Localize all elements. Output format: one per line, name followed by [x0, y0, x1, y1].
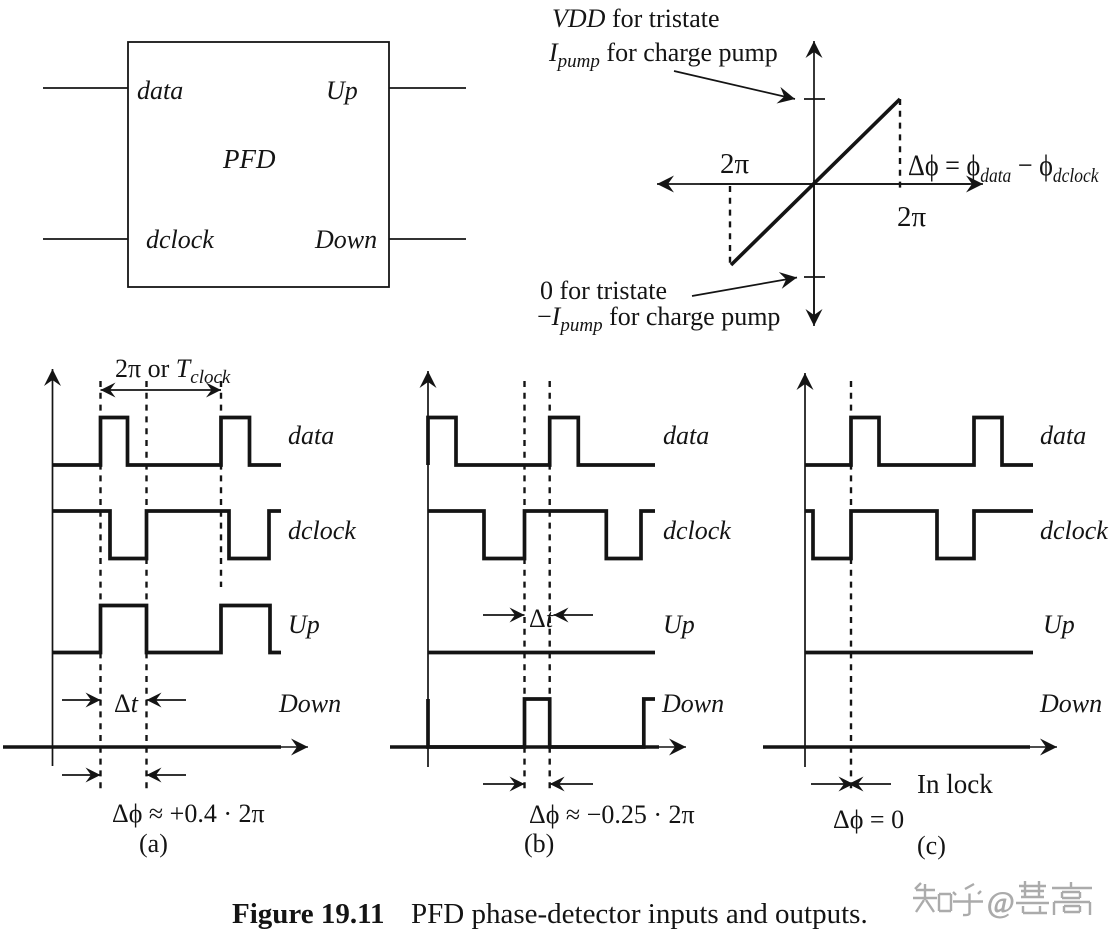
- annotation arrow to VDD tick: [674, 71, 795, 99]
- svg-text:dclock: dclock: [663, 516, 731, 545]
- wire Up output: [389, 87, 466, 89]
- svg-text:Down: Down: [314, 225, 377, 254]
- svg-text:Down: Down: [661, 689, 724, 718]
- panel c dashed line: [850, 381, 852, 792]
- panel a vertical axis: [52, 369, 54, 766]
- svg-text:Down: Down: [1039, 689, 1102, 718]
- svg-text:2π: 2π: [720, 148, 750, 180]
- wire dclock input: [43, 238, 128, 240]
- panel b dashed line 2: [549, 381, 551, 793]
- svg-text:data: data: [288, 421, 334, 450]
- svg-text:Up: Up: [326, 76, 358, 105]
- PFD block U1: [128, 42, 389, 287]
- panel a dashed line 3: [220, 381, 222, 587]
- svg-text:@: @: [987, 886, 1015, 919]
- panel a delta-t arrows upper: [62, 699, 101, 701]
- panel c in-lock arrows: [811, 783, 854, 785]
- panel c vertical axis: [804, 373, 806, 767]
- svg-text:Δϕ ≈ −0.25 · 2π: Δϕ ≈ −0.25 · 2π: [529, 800, 695, 829]
- panel b Down waveform: [428, 699, 655, 747]
- svg-text:data: data: [663, 421, 709, 450]
- label delta-phi formula: [908, 149, 1099, 187]
- watermark zhihu: [913, 883, 983, 915]
- svg-text:2π: 2π: [897, 201, 927, 233]
- panel b dclock waveform: [428, 511, 655, 559]
- svg-text:Up: Up: [1043, 610, 1075, 639]
- measure arrow 2pi period: [101, 389, 222, 391]
- wire Down output: [389, 238, 466, 240]
- panel a dashed line 1: [99, 381, 101, 794]
- svg-text:Up: Up: [288, 610, 320, 639]
- svg-text:Δt: Δt: [114, 689, 139, 718]
- panel c time axis: [763, 745, 1030, 749]
- panel b Up waveform: [428, 651, 655, 655]
- panel a dclock waveform: [53, 511, 282, 559]
- panel b measure arrows below axis: [483, 783, 525, 785]
- svg-text:dclock: dclock: [146, 225, 214, 254]
- panel c Up waveform: [805, 651, 1033, 655]
- panel b data waveform: [428, 418, 655, 466]
- panel b time axis: [390, 745, 659, 749]
- transfer curve vertical axis: [813, 41, 815, 322]
- panel a Up waveform: [53, 606, 282, 653]
- svg-text:Δϕ ≈ +0.4 · 2π: Δϕ ≈ +0.4 · 2π: [112, 799, 265, 828]
- panel a measure arrows below axis: [62, 774, 101, 776]
- wire data input: [43, 87, 128, 89]
- panel a data waveform: [53, 418, 282, 466]
- panel c dclock waveform: [805, 511, 1033, 559]
- svg-text:dclock: dclock: [1040, 516, 1108, 545]
- svg-text:Down: Down: [278, 689, 341, 718]
- svg-text:Δt: Δt: [529, 604, 554, 633]
- tick -Ipump level: [804, 276, 825, 278]
- svg-text:dclock: dclock: [288, 516, 356, 545]
- svg-text:PFD: PFD: [222, 144, 276, 174]
- tick VDD level: [804, 98, 825, 100]
- svg-text:(b): (b): [524, 829, 554, 858]
- panel b dashed line 1: [523, 381, 525, 793]
- svg-text:In lock: In lock: [917, 769, 993, 799]
- panel b delta-t arrows: [483, 614, 525, 616]
- transfer curve horizontal axis: [657, 183, 970, 185]
- svg-text:PFD phase-detector inputs and: PFD phase-detector inputs and outputs.: [411, 898, 868, 930]
- svg-text:Δϕ = 0: Δϕ = 0: [833, 805, 904, 834]
- annotation arrow to -Ipump tick: [692, 278, 797, 297]
- svg-text:Figure 19.11: Figure 19.11: [232, 898, 385, 930]
- svg-text:data: data: [137, 76, 183, 105]
- svg-text:0 for tristate: 0 for tristate: [540, 276, 667, 305]
- panel a time axis: [3, 745, 281, 749]
- svg-text:Up: Up: [663, 610, 695, 639]
- svg-text:VDD for tristate: VDD for tristate: [552, 4, 720, 33]
- panel c data waveform: [805, 418, 1033, 466]
- svg-text:(a): (a): [139, 829, 168, 858]
- svg-text:data: data: [1040, 421, 1086, 450]
- panel a dashed line 2: [145, 381, 147, 794]
- panel b vertical axis: [427, 371, 429, 767]
- dashed line at plus 2pi: [899, 99, 901, 192]
- transfer characteristic diagonal: [731, 99, 900, 265]
- dashed line at minus 2pi: [729, 186, 731, 265]
- svg-text:(c): (c): [917, 831, 946, 860]
